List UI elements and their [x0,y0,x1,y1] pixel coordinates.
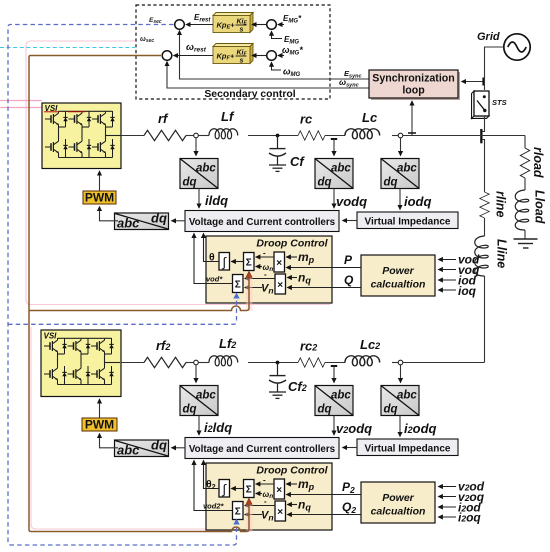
wire Q2 input [287,514,361,516]
wire vod2* out to VCC2 [194,460,233,510]
resistor rf [144,130,186,140]
svg-text:Voltage and Current controller: Voltage and Current controllers [189,444,336,455]
svg-text:-: - [264,497,267,506]
wire rf to node [186,135,194,137]
svg-text:Power: Power [382,492,414,504]
svg-text:KpE+: KpE+ [217,21,236,31]
inverter VSI1 bridge [45,111,121,158]
svg-text:rload: rload [531,147,545,178]
wire w_sec brown routing [29,56,249,532]
transform block abc-dq i2odq [381,386,419,416]
multiplier nq 2 [275,501,286,521]
svg-text:rc: rc [300,112,313,127]
wire Lf to rc with Cf node [248,135,298,137]
inverter VSI2 box [41,330,121,397]
transform block abc-dq i2ldq [180,386,218,416]
svg-text:Q: Q [344,273,354,287]
junction vodq tap [331,138,337,140]
inductor Lc2 [345,356,380,366]
multiplier mp 2 [274,479,285,499]
svg-text:-: - [263,249,266,258]
ground Cf2 [269,392,286,398]
wire voq input [438,269,456,271]
highlight box subsystem 1 [26,41,330,305]
inductor Lline [475,236,489,276]
svg-text:P: P [344,253,353,267]
wire Lf2 to rc2 with Cf2 node [248,362,298,364]
svg-text:-: - [263,476,266,485]
droop control 1 box [206,236,332,303]
node ildq tap [194,133,199,138]
dc link wires VSI1 [0,100,42,102]
impedance box 2 Virtual Impedance [357,439,458,456]
wire v2od input [438,486,456,488]
svg-text:i2oq: i2oq [458,511,481,525]
inverter VSI2 bridge [44,338,120,385]
svg-text:Lc: Lc [362,110,378,125]
wire bus bar down to line [482,140,485,193]
node iodq tap [398,133,403,138]
PI block Kpf+Kif/s [213,44,253,65]
wire PWM2 to VSI2 [99,399,101,418]
svg-text:VSI: VSI [44,332,58,341]
svg-text:-: - [264,270,267,279]
wire vod input [438,259,456,261]
modulator PWM1 [83,191,116,204]
wire i2odq output [399,416,401,437]
summer v 2 [233,502,244,520]
resistor rload [520,148,529,178]
svg-text:v2odq: v2odq [336,421,372,436]
svg-text:θ: θ [209,252,215,264]
inverter VSI1 box [42,103,121,169]
svg-text:Lline: Lline [495,239,509,268]
power calculation 1 box [361,255,435,296]
wire i2od input [438,506,456,508]
wire grid tap to sync loop [462,81,486,83]
controller box 2 Voltage and Current controllers [185,438,339,459]
wire x1 to sum1 minus 2 [256,483,274,485]
svg-text:vod2*: vod2* [203,502,225,511]
resistor rc [298,131,325,140]
wire x2 to sum2 minus [245,278,275,280]
svg-text:STS: STS [492,98,507,107]
junction v2odq tap [331,365,337,367]
svg-text:ωsec: ωsec [140,36,154,44]
node i2ldq tap [194,360,199,365]
wire mp input [286,256,297,258]
svg-text:Power: Power [382,265,414,277]
svg-text:Droop Control: Droop Control [256,465,328,477]
glow brown arrow 2 [246,502,253,532]
arrow w_sec into sum1 droop2 [246,498,252,504]
wire ildq tap down [195,138,197,156]
svg-text:Σ: Σ [235,507,241,518]
wire nq input [287,277,297,279]
wire ildq output [198,189,200,209]
svg-text:ildq: ildq [205,193,228,208]
multiplier mp 1 [274,252,285,272]
svg-text:rline: rline [494,191,508,217]
wire mp input 2 [286,483,297,485]
wire w_rest arrow PI2 to sumW1 [174,55,214,57]
capacitor Cf2 [269,363,286,392]
capacitor Cf [269,136,286,165]
wire x1 to sum1 minus [256,256,274,258]
svg-text:vod*: vod* [206,275,223,284]
wire sumE2 to PI1 [252,24,266,26]
wire i2ldq output [198,416,200,436]
svg-text:abc: abc [117,443,140,458]
inductor Lf [209,129,238,139]
subsystem border cyan dashed [0,47,135,49]
arrow E_sec into sum2 droop2 [233,519,239,525]
highlight box subsystem 2 [31,327,330,529]
wire wn input [256,266,262,268]
svg-text:Lload: Lload [533,190,547,224]
wire ioq input [438,289,456,291]
bus bar junction [480,129,482,143]
resistor rc2 [298,358,325,367]
summer w 1 [244,253,255,271]
wire bus to load [403,135,525,137]
resistor rline [480,192,489,218]
wire Vn input [245,287,262,289]
wire VSI1 output [121,135,144,137]
summer w 2 [244,480,255,498]
integrator 2 [219,480,230,498]
svg-text:s: s [240,27,244,34]
svg-text:Σ: Σ [235,280,241,291]
wire VCC2 to dq-abc2 [172,447,186,449]
wire iodq tap down [400,138,402,156]
svg-text:Droop Control: Droop Control [256,238,328,250]
dc rail red segments [44,111,59,113]
wire sum1 to integrator [231,261,243,263]
wire rc to Lc with vodq tap [325,135,345,137]
label E_MG input [272,31,283,38]
svg-text:Voltage and Current controller: Voltage and Current controllers [189,217,336,228]
wire w_sync feedback [167,62,369,88]
wire P input [286,267,361,269]
wire P2 input [286,494,361,496]
inductor Lload [515,190,529,230]
wire STS to bus bar [482,116,485,132]
wire theta out to VCC [204,233,220,261]
wire dq-abc2 to PWM2 [100,434,119,448]
arrow w_sec into sum1 droop1 [246,271,252,277]
wire E_sec blue dashed routing [8,25,237,546]
wire VI2 to VCC2 [343,447,358,449]
svg-text:Virtual Impedance: Virtual Impedance [365,217,451,228]
wire PWM1 to VSI1 [99,171,101,191]
svg-text:ioq: ioq [458,284,477,298]
svg-text:PWM: PWM [85,191,114,205]
svg-text:calcualtion: calcualtion [371,506,426,518]
wire E_sec branch droop1 [8,297,237,324]
switch STS [472,91,490,119]
summer v 1 [233,275,244,293]
wire iodq output [399,189,401,210]
svg-text:Secondary control: Secondary control [204,89,295,100]
svg-text:dq: dq [151,438,167,453]
wire theta2 out to VCC2 [204,460,220,488]
wire nq input 2 [287,504,297,506]
svg-text:×: × [276,485,282,496]
label w_MG* input [278,55,284,57]
svg-text:Σ: Σ [246,485,252,496]
wire vodq output [333,189,335,209]
wire Vn input 2 [245,514,262,516]
svg-text:Lf: Lf [221,109,235,124]
wire Q input [287,287,361,289]
node sum E2 [267,20,277,30]
wire rc2 to Lc2 [325,362,345,364]
label w_MG input [272,62,282,70]
resistor rf2 [144,357,186,367]
node Cf junction [276,134,280,138]
svg-text:s: s [240,58,244,65]
wire sum1 to integrator 2 [231,488,243,490]
wire E_sync feedback [180,31,370,79]
wire grid to STS [485,47,504,90]
integrator 1 [219,253,230,271]
wire v2odq output [333,416,335,436]
label E_MG* input [278,24,284,26]
wire bus down to rload [524,136,526,149]
svg-text:Virtual Impedance: Virtual Impedance [365,444,451,455]
svg-text:×: × [277,507,283,518]
transform block abc-dq v2odq [315,386,353,416]
ground Cf [269,165,286,171]
wire Lc to node [392,135,398,137]
multiplier nq 1 [275,274,286,294]
svg-text:calcualtion: calcualtion [371,279,426,291]
transform block abc-dq ildq [180,159,218,189]
svg-text:Grid: Grid [477,31,500,43]
wire bus2 to line [403,362,485,364]
svg-text:Synchronization: Synchronization [372,73,454,85]
wire i2ldq tap down [195,365,197,383]
power calculation 2 box [361,482,435,523]
svg-text:Σ: Σ [246,258,252,269]
wire VI to VCC [343,220,358,222]
node i2odq tap [398,360,403,365]
impedance box Virtual Impedance [357,212,458,229]
inductor Lc [345,129,380,139]
svg-text:Cf: Cf [290,154,305,169]
wire vod* out to VCC [194,233,233,283]
node sum W2 [267,51,277,61]
PI block Kpe+Kie/s [213,13,253,34]
modulator PWM2 [82,418,117,431]
transform block dq-abc pwm2 [115,438,169,458]
node sum E1 [175,20,185,30]
wire node to Lf2 [198,362,209,364]
svg-text:×: × [277,280,283,291]
transform block dq-abc pwm1 [115,211,169,231]
wire rline to Lline [484,218,486,236]
wire Lline down to bus2 [484,276,486,363]
node sum W1 [162,51,172,61]
wire w_sec branch droop1 [29,276,249,311]
wire i2oq input [438,516,456,518]
wire rload to Lload [524,178,526,190]
wire Lc2 to node [392,362,398,364]
svg-text:KpF+: KpF+ [217,52,235,62]
wire VCC to dq-abc [172,220,186,222]
svg-text:PWM: PWM [85,418,114,432]
wire sumW2 to PI2 [252,55,266,57]
svg-text:loop: loop [402,85,425,97]
droop control 2 box [206,463,332,530]
wire v2oq input [438,496,456,498]
arrow E_sec into sum2 droop1 [233,293,239,299]
wire node to Lf [198,135,209,137]
transform block abc-dq iodq [381,159,419,189]
wire iod input [438,279,456,281]
svg-text:abc: abc [117,216,140,231]
node Cf2 junction [276,361,280,365]
svg-text:×: × [276,258,282,269]
ground load [514,239,538,248]
wire Lload to ground [524,230,526,239]
wire x2 to sum2 minus 2 [245,505,275,507]
wire dq-abc to PWM1 [100,207,119,221]
secondary control dashed box [136,5,330,99]
svg-text:iodq: iodq [404,194,431,209]
glow brown arrow 1 [246,275,253,311]
synchronization loop box [369,70,460,100]
wire wn input 2 [256,493,262,495]
wire E_rest arrow PI1 to sumE1 [186,24,213,26]
inductor Lf2 [209,356,238,366]
transform block abc-dq vodq [315,159,353,189]
wire VSI2 output [121,362,144,364]
wire i2odq tap down [400,365,402,383]
wire bus tap to sync loop bottom [411,101,413,136]
svg-text:vodq: vodq [336,194,367,209]
controller box Voltage and Current controllers [185,211,339,232]
wire rf2 to node [186,362,194,364]
svg-text:dq: dq [151,211,167,226]
grid AC source [504,34,530,60]
